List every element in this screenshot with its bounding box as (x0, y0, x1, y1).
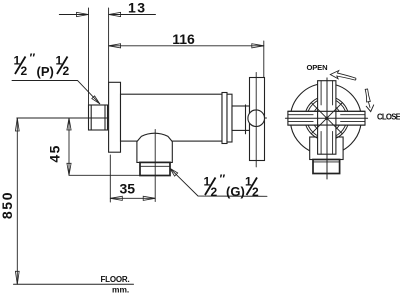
collar ring 1 (222, 93, 227, 144)
bonnet front (310, 137, 343, 160)
horizontal bar inner lines (288, 114, 313, 116)
label G half inch (204, 172, 260, 199)
vertical bar inner lines (320, 81, 322, 105)
dim 45 arrow top (67, 118, 71, 130)
stem neck (232, 106, 250, 130)
dim 13 arrow right (109, 12, 121, 16)
svg-text:OPEN: OPEN (307, 63, 328, 72)
dim 116 arrow left (109, 44, 121, 48)
label PJ half inch (14, 51, 70, 79)
dim 35 ext left (109, 155, 111, 202)
cross bar vertical (318, 81, 336, 155)
svg-text:45: 45 (46, 144, 62, 163)
outlet elbow (137, 133, 172, 162)
ext line wall face (108, 8, 110, 82)
close arrow (365, 89, 370, 102)
wire centerline main axis (17, 117, 267, 119)
outlet centerline (154, 130, 156, 202)
front centerline vertical (326, 78, 328, 179)
nipple front (313, 160, 340, 174)
valve body side: wall nut (89, 105, 108, 130)
ext line nut left (88, 8, 90, 105)
wall flange (109, 82, 121, 152)
dim 45 vertical line (68, 118, 70, 175)
outer circle (290, 84, 361, 155)
cross bar horizontal (288, 111, 365, 125)
outlet nipple (140, 162, 170, 175)
dim 850 arrow bottom (15, 271, 19, 284)
dim 13 right tail (109, 14, 156, 16)
leader PJ label (12, 81, 100, 104)
leader PJ arrowhead (92, 96, 100, 104)
dim 850 vertical line (16, 118, 18, 284)
svg-text:2: 2 (63, 64, 70, 78)
handle hub circle (248, 110, 265, 127)
open arrow (330, 71, 356, 81)
horizontal bar redraw edges (288, 110, 365, 112)
leader G arrowhead (170, 168, 178, 176)
svg-text:13: 13 (128, 0, 147, 16)
svg-text:116: 116 (172, 31, 195, 47)
floor line (14, 283, 134, 285)
svg-text:2: 2 (21, 64, 28, 78)
svg-text:CLOSE: CLOSE (377, 112, 400, 121)
svg-text:850: 850 (0, 191, 15, 219)
front centerline horizontal (285, 117, 367, 119)
svg-text:35: 35 (120, 181, 136, 197)
leader G label (170, 168, 267, 196)
dim 45 arrow bottom (67, 163, 71, 175)
center dot (325, 117, 328, 120)
svg-text:mm.: mm. (112, 284, 129, 294)
ext line handle right (263, 41, 265, 78)
dim 35 arrow right (143, 196, 155, 200)
handle vertical centerline (255, 73, 257, 167)
collar ring 2 (227, 94, 232, 142)
dim 35 line (110, 197, 155, 199)
dim 13 left tail (59, 14, 88, 16)
handle side view bar (250, 78, 265, 161)
dim 116 arrow right (252, 44, 264, 48)
dim 35 arrow left (110, 196, 122, 200)
cross diagonals (311, 103, 327, 119)
svg-text:(G): (G) (226, 184, 245, 199)
body cylinder (121, 94, 223, 141)
dim 850 arrow top (15, 118, 19, 131)
svg-text:FLOOR.: FLOOR. (101, 275, 130, 284)
dim 13 arrow left (77, 12, 89, 16)
svg-text:(P): (P) (37, 64, 54, 79)
svg-text:2: 2 (211, 185, 218, 199)
svg-text:″: ″ (30, 51, 36, 65)
dim 116 line (109, 45, 264, 47)
hub arcs (313, 104, 341, 132)
svg-text:2: 2 (252, 185, 259, 199)
svg-text:″: ″ (220, 172, 226, 186)
wire ext line nipple bottom (69, 174, 141, 176)
